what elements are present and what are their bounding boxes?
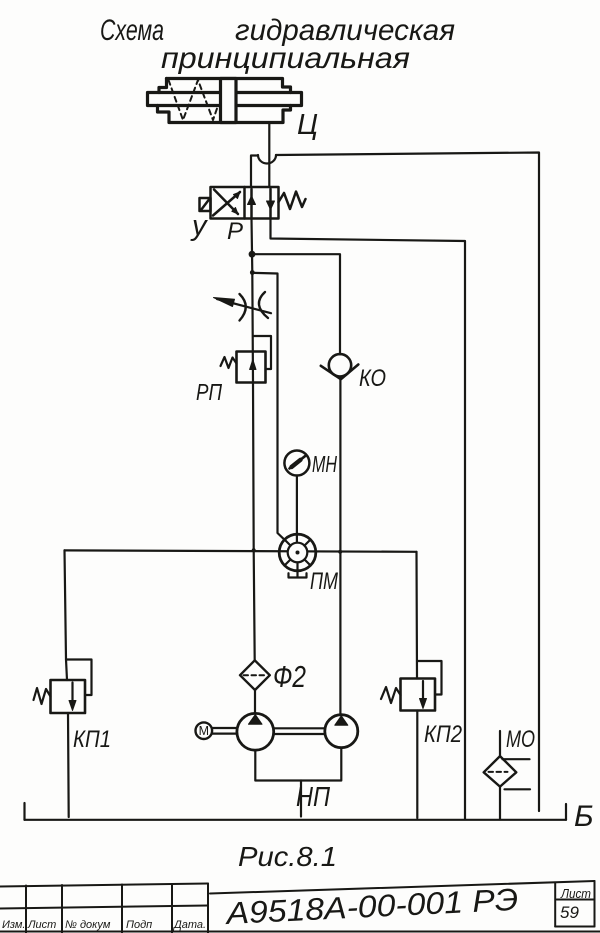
svg-text:принципиальная: принципиальная xyxy=(161,42,410,75)
svg-text:Рис.8.1: Рис.8.1 xyxy=(238,841,337,872)
svg-text:Дата.: Дата. xyxy=(172,919,206,931)
svg-text:Б: Б xyxy=(574,800,594,833)
svg-text:Р: Р xyxy=(227,218,243,245)
svg-text:Лист: Лист xyxy=(560,886,591,901)
svg-text:Изм.: Изм. xyxy=(2,919,25,931)
svg-text:Ц: Ц xyxy=(297,109,318,141)
svg-text:А9518А-00-001 РЭ: А9518А-00-001 РЭ xyxy=(223,882,519,931)
svg-text:НП: НП xyxy=(296,781,331,812)
svg-text:М: М xyxy=(199,724,209,738)
svg-text:КП2: КП2 xyxy=(424,721,462,748)
svg-text:59: 59 xyxy=(560,903,579,922)
svg-text:ПМ: ПМ xyxy=(310,568,338,595)
svg-text:Подп: Подп xyxy=(126,919,152,931)
svg-text:МН: МН xyxy=(312,451,337,477)
svg-text:МО: МО xyxy=(506,726,535,753)
svg-text:у: у xyxy=(190,210,208,242)
svg-text:Схема: Схема xyxy=(100,14,164,47)
svg-text:Ф2: Ф2 xyxy=(273,659,306,694)
svg-text:РП: РП xyxy=(196,379,222,405)
svg-text:КП1: КП1 xyxy=(73,726,111,753)
svg-text:Лист: Лист xyxy=(27,919,56,931)
svg-text:№ докум: № докум xyxy=(65,919,111,931)
svg-text:КО: КО xyxy=(359,365,386,392)
